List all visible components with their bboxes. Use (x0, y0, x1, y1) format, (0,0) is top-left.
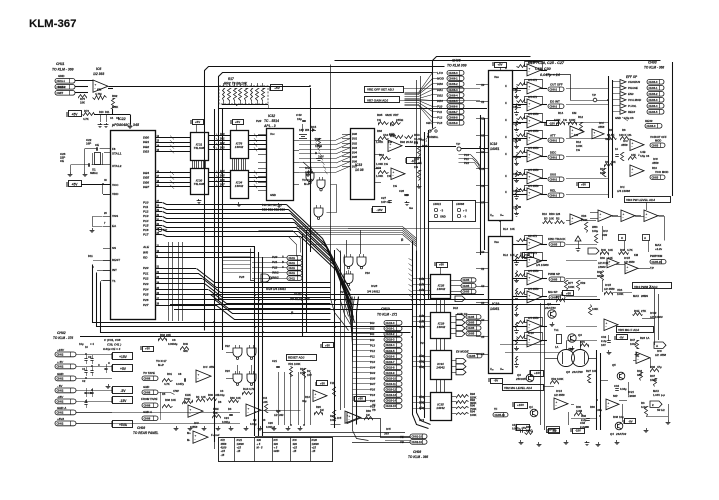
svg-text:CH02: CH02 (57, 389, 64, 393)
svg-text:VR2: VR2 (568, 347, 574, 351)
svg-text:10K: 10K (201, 395, 206, 399)
svg-text:KHK: KHK (185, 393, 191, 397)
svg-text:1A: 1A (555, 345, 558, 349)
svg-text:M-: M- (187, 438, 190, 442)
svg-text:X: X (505, 190, 507, 194)
svg-text:VCC: VCC (112, 183, 119, 187)
svg-text:DB2: DB2 (437, 93, 443, 97)
svg-text:-: - (390, 145, 391, 149)
svg-text:28MS: 28MS (641, 294, 648, 298)
svg-text:-: - (529, 70, 530, 74)
svg-text:R23: R23 (640, 336, 645, 340)
svg-text:+5V: +5V (358, 396, 363, 400)
svg-text:SUS: SUS (550, 173, 556, 177)
svg-text:-: - (393, 173, 394, 177)
svg-text:INH2: INH2 (272, 276, 279, 280)
svg-text:M+P: M+P (158, 363, 164, 367)
svg-text:P13: P13 (370, 343, 375, 347)
svg-text:15K: 15K (631, 153, 636, 157)
svg-text:CH06-7: CH06-7 (449, 110, 459, 114)
svg-text:D05: D05 (220, 175, 225, 178)
svg-text:CH05: CH05 (463, 290, 470, 294)
svg-text:+15: +15 (293, 446, 298, 450)
svg-text:DI2: DI2 (370, 327, 375, 331)
svg-text:CH06-9: CH06-9 (449, 121, 459, 125)
svg-text:CH02: CH02 (57, 422, 64, 426)
svg-text:P15: P15 (143, 223, 149, 227)
svg-text:VSS: VSS (112, 214, 118, 218)
svg-text:DEC: DEC (550, 151, 557, 155)
svg-text:IC19: IC19 (492, 302, 499, 306)
svg-text:0.01µ CE × 4: 0.01µ CE × 4 (103, 347, 121, 351)
svg-text:+5V: +5V (581, 182, 586, 186)
svg-text:R2: R2 (556, 217, 560, 221)
svg-text:1/2: 1/2 (274, 413, 278, 417)
svg-text:+5V: +5V (195, 120, 200, 124)
svg-text:D11: D11 (88, 254, 93, 258)
svg-text:56P: 56P (613, 394, 618, 398)
svg-text:CH11: CH11 (294, 292, 302, 296)
svg-text:CH8-2: CH8-2 (550, 87, 558, 91)
svg-text:E6 MODE: E6 MODE (456, 350, 469, 354)
svg-text:1/4 14066: 1/4 14066 (617, 189, 630, 193)
svg-text:CH8-2: CH8-2 (550, 104, 558, 108)
svg-text:100K: 100K (576, 144, 583, 148)
svg-text:C6: C6 (88, 391, 92, 395)
svg-text:IC32: IC32 (268, 114, 275, 118)
svg-text:VR2: VR2 (551, 377, 557, 381)
svg-text:D03: D03 (352, 146, 357, 150)
svg-text:-15: -15 (312, 449, 316, 453)
svg-text:-5V: -5V (552, 429, 556, 433)
svg-text:DB1: DB1 (437, 88, 443, 92)
svg-text:W83: W83 (592, 225, 598, 229)
svg-text:APL - 3: APL - 3 (263, 124, 276, 128)
svg-text:FROM TAPE: FROM TAPE (141, 397, 157, 401)
svg-text:D07: D07 (370, 382, 376, 386)
svg-text:DB0: DB0 (437, 82, 443, 86)
svg-text:C8: C8 (178, 372, 182, 376)
svg-text:VR5 MG F ADJ: VR5 MG F ADJ (618, 328, 640, 332)
svg-text:P16: P16 (365, 271, 370, 275)
svg-text:VR7 GAIN ADJ: VR7 GAIN ADJ (367, 99, 389, 103)
svg-text:CH08: CH08 (144, 376, 151, 380)
svg-text:EG INT: EG INT (550, 100, 560, 104)
svg-text:1%: 1% (393, 184, 398, 188)
svg-text:CH10-8: CH10-8 (386, 365, 395, 369)
svg-text:R13: R13 (305, 395, 310, 399)
svg-text:TE: TE (400, 435, 404, 439)
svg-text:1/4 4558: 1/4 4558 (528, 269, 539, 273)
svg-text:100μ: 100μ (596, 408, 602, 412)
svg-text:-: - (572, 219, 573, 223)
svg-text:X1: X1 (480, 267, 485, 271)
svg-text:-: - (529, 156, 530, 160)
svg-text:CH02: CH02 (57, 331, 66, 335)
svg-text:D00: D00 (220, 133, 225, 136)
svg-text:48K: 48K (183, 349, 188, 353)
svg-text:CH10-15: CH10-15 (386, 404, 397, 408)
svg-text:CH10-14: CH10-14 (386, 399, 397, 403)
svg-text:TO KLM - 369: TO KLM - 369 (290, 297, 310, 301)
svg-text:X1: X1 (480, 100, 485, 104)
svg-text:VRE OFF SET ADJ: VRE OFF SET ADJ (367, 88, 394, 92)
svg-text:+15V: +15V (119, 355, 128, 359)
svg-text:+5V: +5V (71, 182, 78, 186)
svg-text:4.4B: 4.4B (605, 137, 611, 141)
svg-text:CH10-3: CH10-3 (386, 338, 395, 342)
svg-text:R4E: R4E (634, 309, 640, 313)
svg-text:4.4B: 4.4B (640, 150, 646, 154)
svg-text:CH01-10: CH01-10 (412, 435, 423, 439)
svg-text:+5V: +5V (71, 112, 78, 116)
svg-text:P25: P25 (143, 293, 149, 297)
svg-text:-: - (248, 410, 249, 414)
svg-text:X: X (505, 84, 507, 88)
svg-text:VR4 PWM ℤADJ: VR4 PWM ℤADJ (634, 285, 658, 289)
svg-text:CH05: CH05 (551, 277, 558, 281)
svg-text:C36: C36 (581, 414, 586, 418)
svg-text:-: - (638, 357, 639, 361)
svg-text:14 08: 14 08 (355, 168, 364, 172)
svg-text:R6: R6 (609, 128, 613, 132)
svg-text:D07: D07 (352, 164, 357, 168)
svg-text:3.3μ: 3.3μ (641, 405, 647, 409)
svg-text:-: - (349, 417, 350, 421)
svg-text:-: - (623, 215, 624, 219)
svg-text:GND A: GND A (57, 406, 66, 410)
svg-text:KM: KM (572, 111, 577, 115)
svg-text:P10: P10 (437, 104, 443, 108)
svg-text:CH05: CH05 (551, 242, 558, 246)
svg-text:X: X (505, 152, 507, 156)
svg-text:P16: P16 (370, 393, 375, 397)
svg-text:-: - (646, 215, 647, 219)
svg-text:10K: 10K (549, 217, 554, 221)
svg-text:339: 339 (257, 438, 262, 442)
svg-text:R4: R4 (196, 395, 200, 399)
svg-text:+5V: +5V (235, 120, 240, 124)
svg-text:CH05: CH05 (468, 326, 475, 330)
svg-text:MOD: MOD (655, 138, 661, 142)
svg-text:CH10-0: CH10-0 (386, 321, 395, 325)
svg-text:14066: 14066 (456, 202, 465, 206)
svg-text:R4: R4 (605, 160, 609, 164)
svg-text:CH06-8: CH06-8 (449, 116, 459, 120)
svg-text:14011: 14011 (433, 202, 441, 206)
svg-text:R27: R27 (586, 369, 591, 373)
svg-text:Q5: Q5 (612, 363, 616, 367)
svg-text:CH8-2: CH8-2 (550, 138, 558, 142)
svg-text:1/4 4558: 1/4 4558 (528, 168, 539, 172)
svg-text:14042: 14042 (436, 365, 445, 369)
svg-text:CH10-1: CH10-1 (386, 327, 395, 331)
svg-text:R14: R14 (558, 111, 564, 115)
svg-text:1A: 1A (646, 336, 650, 340)
svg-text:Tn1: Tn1 (554, 328, 559, 332)
svg-text:P10: P10 (143, 201, 149, 205)
svg-text:D00: D00 (352, 132, 357, 136)
svg-text:DB4: DB4 (143, 171, 149, 175)
svg-text:-: - (529, 261, 530, 265)
svg-text:-: - (347, 417, 348, 421)
svg-text:-: - (600, 215, 601, 219)
svg-text:CH03: CH03 (652, 143, 659, 147)
svg-text:X: X (505, 135, 507, 139)
svg-text:CH11: CH11 (289, 276, 296, 280)
svg-text:R12: R12 (576, 140, 581, 144)
svg-text:R30: R30 (230, 396, 235, 400)
svg-text:C2: C2 (82, 379, 86, 383)
svg-text:D03: D03 (370, 371, 376, 375)
svg-text:-5V: -5V (494, 378, 499, 382)
svg-text:1/4 4558: 1/4 4558 (528, 129, 539, 133)
svg-text:-15V: -15V (575, 428, 581, 432)
svg-text:CH11-1: CH11-1 (57, 80, 66, 83)
svg-text:P17: P17 (143, 232, 149, 236)
svg-text:CH03-1: CH03-1 (649, 86, 658, 90)
svg-text:74LS08: 74LS08 (194, 146, 205, 150)
svg-text:CH10-12: CH10-12 (386, 388, 397, 392)
svg-text:0.1: 0.1 (404, 193, 408, 197)
svg-text:CH05-15: CH05-15 (652, 261, 663, 264)
svg-text:F-mod: F-mod (211, 433, 220, 437)
svg-text:CH08: CH08 (144, 403, 151, 407)
svg-text:TO REAR PANEL: TO REAR PANEL (133, 431, 159, 435)
svg-text:4160: 4160 (220, 446, 227, 450)
svg-text:-15: -15 (237, 449, 241, 453)
svg-text:DI1: DI1 (370, 332, 375, 336)
svg-text:RRC T8 B8 10K: RRC T8 B8 10K (224, 82, 248, 86)
svg-text:C26: C26 (268, 421, 273, 425)
svg-text:+15V: +15V (57, 348, 65, 352)
svg-text:4.7K: 4.7K (627, 248, 633, 252)
svg-text:-15: -15 (221, 453, 225, 457)
svg-text:16V: 16V (299, 128, 304, 132)
svg-text:3/4 14011: 3/4 14011 (367, 290, 380, 294)
svg-text:REST: REST (112, 258, 120, 262)
svg-text:MAX: MAX (653, 389, 659, 393)
svg-text:R92: R92 (470, 398, 475, 402)
svg-text:IC14: IC14 (556, 389, 562, 393)
svg-text:P25: P25 (370, 399, 375, 403)
svg-text:P11: P11 (437, 110, 442, 114)
svg-text:CH03-5: CH03-5 (649, 110, 658, 114)
svg-text:D02: D02 (352, 141, 357, 145)
svg-text:1/2 072: 1/2 072 (528, 234, 538, 238)
svg-text:B: B (315, 151, 317, 155)
svg-text:P11: P11 (370, 354, 375, 358)
svg-text:C39, C41 ): C39, C41 ) (107, 343, 121, 347)
svg-text:+5V: +5V (525, 252, 530, 256)
svg-text:+5V: +5V (320, 381, 325, 385)
svg-text:CH03-0: CH03-0 (649, 80, 658, 84)
svg-text:IC15: IC15 (624, 256, 630, 260)
svg-text:GND A: GND A (143, 410, 152, 414)
svg-text:P16: P16 (143, 228, 149, 232)
svg-text:GND: GND (57, 372, 64, 376)
svg-text:CUT OFF: CUT OFF (655, 135, 667, 139)
svg-text:D05: D05 (352, 155, 357, 159)
svg-text:RESET ADJ: RESET ADJ (288, 356, 305, 360)
svg-text:14051: 14051 (490, 147, 500, 151)
svg-text:P12: P12 (437, 116, 443, 120)
svg-text:D10: D10 (99, 111, 104, 114)
svg-text:X5: X5 (480, 335, 485, 339)
svg-text:CH10-11: CH10-11 (386, 382, 397, 386)
svg-text:10K: 10K (171, 398, 176, 402)
svg-text:CH03-4: CH03-4 (649, 104, 658, 108)
svg-text:CH11: CH11 (289, 266, 296, 270)
svg-text:CE: CE (60, 159, 64, 163)
svg-text:-: - (529, 244, 530, 248)
svg-text:100μ: 100μ (592, 229, 599, 233)
svg-text:XTAL2: XTAL2 (112, 164, 122, 168)
svg-text:DI0: DI0 (370, 338, 375, 342)
svg-text:T.P: T.P (456, 142, 460, 146)
svg-text:C: C (98, 363, 100, 367)
svg-text:+ 5: + 5 (274, 446, 278, 450)
svg-text:TO KLM - 369: TO KLM - 369 (52, 68, 74, 72)
svg-text:DB3: DB3 (437, 99, 443, 103)
svg-text:P27: P27 (143, 303, 149, 307)
svg-text:D12: D12 (453, 306, 458, 310)
svg-text:Ga: Ga (409, 206, 413, 210)
svg-text:IC23: IC23 (371, 284, 378, 288)
svg-text:100K: 100K (557, 377, 564, 381)
svg-text:GND: GND (270, 193, 276, 197)
svg-text:10K: 10K (611, 160, 616, 164)
svg-text:+15V: +15V (534, 371, 541, 375)
svg-text:C10 - C18, C25 - C27: C10 - C18, C25 - C27 (528, 61, 565, 65)
svg-text:CH06-3: CH06-3 (449, 88, 459, 92)
svg-text:100K: 100K (568, 285, 575, 289)
svg-text:-15V: -15V (57, 395, 64, 399)
svg-text:CH10-6: CH10-6 (386, 354, 395, 358)
svg-text:+5V: +5V (145, 346, 150, 350)
svg-text:P HOL: P HOL (628, 104, 637, 108)
svg-text:IC20: IC20 (312, 438, 318, 442)
svg-text:× 4: × 4 (90, 342, 94, 346)
svg-text:R12: R12 (578, 115, 583, 119)
svg-text:393: 393 (384, 432, 389, 436)
svg-text:CH06-0: CH06-0 (449, 71, 459, 75)
svg-text:P22: P22 (225, 344, 230, 348)
svg-text:4.7K: 4.7K (83, 117, 89, 121)
svg-text:PWM SP: PWM SP (548, 272, 560, 276)
svg-text:R82: R82 (112, 94, 118, 98)
svg-text:R30: R30 (208, 393, 213, 397)
svg-text:14042: 14042 (235, 184, 244, 188)
svg-text:CH05: CH05 (469, 354, 476, 358)
svg-text:VR2 MG LEVEL ADJ: VR2 MG LEVEL ADJ (504, 386, 532, 390)
svg-text:C21: C21 (513, 106, 518, 109)
svg-text:GND: GND (143, 385, 149, 389)
svg-text:74LS08: 74LS08 (194, 182, 205, 186)
svg-text:1.00K: 1.00K (376, 174, 383, 178)
svg-text:CH10-2: CH10-2 (386, 332, 395, 336)
svg-text:C (C31, C38: C (C31, C38 (104, 338, 121, 342)
svg-text:-: - (529, 122, 530, 126)
svg-text:-: - (529, 178, 530, 182)
svg-text:1/2: 1/2 (655, 353, 659, 357)
svg-text:-: - (606, 324, 607, 328)
svg-text:IC15: IC15 (605, 283, 611, 287)
svg-text:P23: P23 (239, 275, 245, 279)
svg-text:R40: R40 (183, 342, 188, 346)
svg-text:TO KLM - 271: TO KLM - 271 (377, 313, 397, 317)
svg-text:IC6: IC6 (657, 349, 662, 353)
svg-text:16V: 16V (601, 343, 606, 347)
svg-text:Vcc: Vcc (270, 132, 275, 136)
svg-text:-: - (529, 194, 530, 198)
svg-text:CH8-2: CH8-2 (550, 193, 558, 197)
svg-text:TO KLM - 376: TO KLM - 376 (53, 336, 73, 340)
svg-text:0.01µ: 0.01µ (218, 393, 225, 397)
svg-text:R36: R36 (366, 409, 371, 413)
svg-text:C21: C21 (272, 359, 277, 363)
svg-text:Vₑₑ: Vₑₑ (500, 214, 504, 217)
svg-text:P23: P23 (225, 369, 230, 373)
svg-text:D03: D03 (220, 147, 225, 150)
svg-text:0.047µ: 0.047µ (176, 382, 184, 386)
svg-text:DB2: DB2 (143, 145, 149, 149)
svg-text:D3: D3 (228, 407, 232, 411)
svg-text:TF: TF (494, 407, 498, 411)
svg-text:1/4 4558: 1/4 4558 (528, 316, 539, 320)
svg-text:2SA733: 2SA733 (544, 306, 556, 310)
svg-text:IC16: IC16 (528, 331, 534, 335)
svg-text:-: - (190, 411, 191, 415)
svg-text:C25: C25 (513, 173, 518, 176)
svg-text:1/4 4558: 1/4 4558 (528, 184, 539, 188)
svg-text:-: - (529, 105, 530, 109)
svg-text:-: - (529, 88, 530, 92)
svg-text:DB0: DB0 (143, 136, 149, 140)
svg-text:Q3: Q3 (578, 333, 582, 337)
svg-text:14042: 14042 (436, 406, 445, 410)
svg-text:R95: R95 (377, 113, 383, 117)
svg-text:R49: R49 (600, 256, 605, 260)
svg-text:CH11: CH11 (56, 62, 65, 66)
svg-text:CH05: CH05 (468, 315, 475, 319)
svg-text:C24: C24 (224, 416, 229, 420)
svg-text:R71: R71 (556, 295, 561, 299)
svg-text:-: - (632, 170, 633, 174)
svg-text:0.047µ × 14: 0.047µ × 14 (540, 73, 560, 77)
svg-text:DB5: DB5 (143, 176, 149, 180)
svg-text:Vᴅᴅ: Vᴅᴅ (494, 75, 499, 79)
svg-text:P26: P26 (143, 298, 149, 302)
svg-text:+15: +15 (237, 446, 242, 450)
svg-text:RL2: RL2 (503, 253, 508, 257)
svg-text:4.7M: 4.7M (95, 92, 102, 96)
svg-text:IC5: IC5 (386, 427, 391, 431)
svg-text:PHASE: PHASE (628, 86, 638, 90)
svg-text:-: - (594, 134, 595, 138)
svg-text:P12: P12 (370, 349, 375, 353)
svg-text:+2.2ᴠ: +2.2ᴠ (655, 247, 663, 251)
svg-text:CH06-6: CH06-6 (449, 104, 459, 108)
svg-text:D6: D6 (218, 400, 222, 404)
svg-text:4.7M: 4.7M (249, 387, 256, 391)
svg-text:C28: C28 (399, 189, 404, 193)
svg-text:IC18: IC18 (490, 142, 497, 146)
svg-text:-: - (632, 144, 633, 148)
svg-text:10K: 10K (608, 248, 613, 252)
svg-text:P23: P23 (143, 282, 149, 286)
svg-text:X0: X0 (480, 83, 485, 87)
